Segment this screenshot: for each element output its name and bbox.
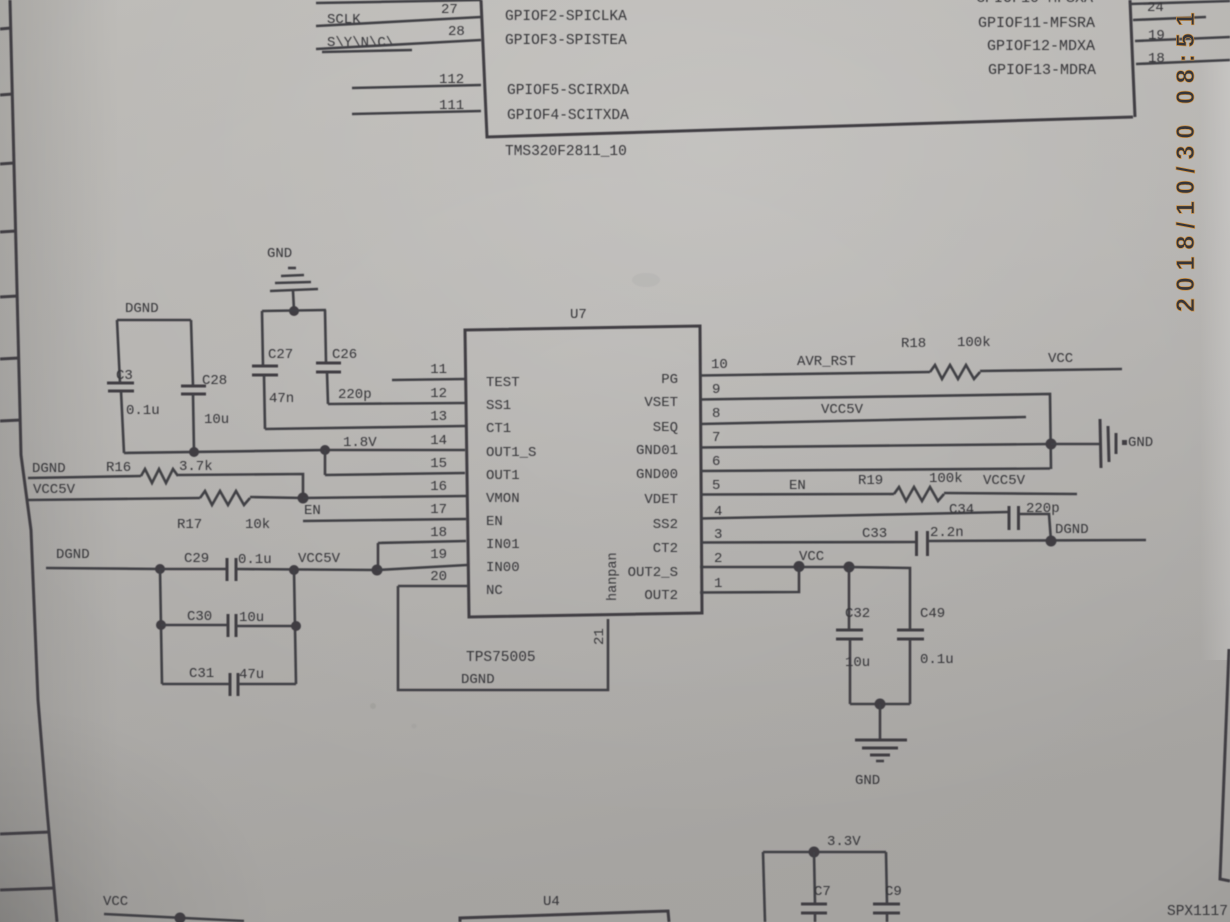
svg-text:C34: C34	[949, 502, 974, 518]
junction GND stem	[875, 699, 886, 710]
svg-text:C32: C32	[845, 606, 870, 622]
junction C30 left	[156, 620, 166, 630]
IC SPX1117 outline (cut at right)	[1220, 649, 1230, 881]
svg-text:VDET: VDET	[644, 492, 678, 508]
svg-text:28: 28	[448, 24, 465, 40]
wire pin above 24 (cut at top right)	[1129, 1, 1230, 4]
wire C29 block right vertical	[294, 570, 296, 684]
capacitor C49	[897, 630, 924, 704]
wire pin 28	[316, 40, 481, 49]
wire pin 2 VCC	[700, 566, 849, 569]
ground GND (below C32/C49)	[855, 704, 907, 761]
capacitor C9	[873, 852, 900, 922]
svg-text:2018/10/30 08:51: 2018/10/30 08:51	[1172, 6, 1200, 312]
wire C30 right	[236, 625, 296, 628]
wire pin 20	[398, 585, 467, 588]
svg-text:DGND: DGND	[1055, 522, 1089, 538]
svg-text:DGND: DGND	[32, 461, 66, 477]
wire C32/C49 bottoms	[850, 703, 910, 706]
wire pin 11	[392, 379, 465, 380]
svg-text:GND: GND	[855, 773, 880, 789]
wire pin 17	[303, 519, 466, 521]
svg-text:10u: 10u	[239, 610, 264, 626]
wire to C31	[162, 683, 230, 686]
svg-text:10k: 10k	[245, 517, 270, 533]
wire pin 16	[303, 496, 466, 498]
svg-text:R17: R17	[177, 517, 202, 533]
svg-text:VCC5V: VCC5V	[821, 402, 864, 418]
svg-text:C7: C7	[814, 884, 831, 900]
junction EN node	[298, 493, 309, 504]
svg-text:R18: R18	[901, 336, 926, 352]
svg-text:C27: C27	[268, 347, 293, 363]
resistor R17 10k	[200, 491, 250, 505]
svg-text:C49: C49	[920, 606, 945, 622]
wire pin 8 VCC5V	[700, 417, 1026, 424]
wire left pin stub 5	[0, 296, 18, 297]
svg-text:C26: C26	[332, 347, 357, 363]
wire pin 111	[352, 111, 481, 114]
svg-text:GND00: GND00	[636, 467, 678, 483]
wire R19 to VCC5V	[944, 493, 1077, 494]
wire C31 right	[238, 683, 296, 686]
svg-text:GPIOF2-SPICLKA: GPIOF2-SPICLKA	[505, 9, 627, 25]
svg-text:2: 2	[714, 551, 722, 567]
svg-text:100k: 100k	[929, 471, 963, 487]
svg-text:DGND: DGND	[56, 547, 90, 563]
resistor R19 100k	[894, 487, 944, 501]
svg-text:VCC5V: VCC5V	[298, 551, 341, 567]
wire pin 112	[352, 85, 481, 88]
svg-text:6: 6	[712, 454, 720, 470]
svg-text:100k: 100k	[957, 335, 991, 351]
wire pin 27 stub above SCLK (cut at top)	[316, 0, 481, 3]
svg-text:3.7k: 3.7k	[179, 459, 213, 475]
wire pin 12	[328, 403, 465, 404]
svg-text:3.3V: 3.3V	[827, 834, 861, 850]
svg-text:11: 11	[430, 362, 447, 378]
wire left pin stub 6	[0, 358, 19, 359]
wire to C30	[161, 624, 228, 627]
svg-text:GPIOF4-SCITXDA: GPIOF4-SCITXDA	[507, 108, 629, 124]
wire pin 4 to C34	[700, 512, 1009, 519]
svg-text:47u: 47u	[239, 667, 264, 683]
svg-text:GPIOF11-MFSRA: GPIOF11-MFSRA	[978, 15, 1095, 32]
capacitor C28	[181, 320, 206, 452]
faint speck 2	[412, 724, 417, 729]
junction 3.3V	[809, 847, 820, 858]
capacitor C3	[107, 320, 134, 453]
svg-text:17: 17	[430, 502, 447, 518]
svg-text:DGND: DGND	[461, 672, 495, 688]
svg-text:GND: GND	[267, 246, 292, 262]
wire to GND symbol	[1051, 443, 1100, 446]
wire DGND to C29 block	[46, 568, 160, 569]
wire pin 15	[325, 473, 465, 475]
svg-text:C33: C33	[862, 526, 887, 542]
junction VCC bottom	[175, 913, 186, 922]
wire to C29	[160, 568, 227, 571]
svg-text:OUT2_S: OUT2_S	[628, 565, 678, 581]
svg-text:GPIOF10-MFSXA: GPIOF10-MFSXA	[976, 0, 1093, 7]
svg-text:GPIOF12-MDXA: GPIOF12-MDXA	[987, 38, 1095, 55]
IC U4 outline (cut at bottom)	[460, 911, 669, 922]
wire pin 9	[700, 394, 1051, 469]
wire left pin stub 2	[0, 94, 13, 95]
junction C29 left	[155, 564, 165, 574]
svg-text:14: 14	[430, 433, 447, 449]
capacitor C30	[228, 614, 236, 637]
junction GND node	[1046, 439, 1057, 450]
wire pin 20 DGND loop to pin 21	[398, 586, 608, 690]
svg-text:47n: 47n	[269, 391, 294, 407]
svg-text:7: 7	[712, 430, 720, 446]
svg-text:19: 19	[430, 547, 447, 563]
capacitor C7	[801, 852, 827, 922]
wire pin 19	[1135, 37, 1230, 41]
svg-text:U7: U7	[570, 307, 587, 323]
svg-text:hanpan: hanpan	[606, 552, 621, 601]
wire 1.8V down to pin 15	[324, 450, 327, 475]
wire DGND to R16	[28, 476, 141, 478]
wire pin 3 to C33	[700, 541, 916, 544]
wire VCC bottom	[104, 914, 244, 921]
svg-text:R16: R16	[106, 460, 131, 476]
svg-text:SS1: SS1	[486, 398, 511, 414]
svg-text:OUT2: OUT2	[644, 588, 678, 604]
svg-text:0.1u: 0.1u	[238, 552, 272, 568]
junction C32 branch	[844, 562, 855, 573]
junction at GND/C27/C26	[289, 306, 299, 316]
svg-text:EN: EN	[304, 503, 321, 519]
svg-text:PG: PG	[661, 372, 678, 388]
wire 3.3V rail	[763, 851, 886, 854]
wire pin 5 EN to R19	[700, 493, 894, 496]
svg-text:OUT1_S: OUT1_S	[486, 445, 536, 461]
faint smudge	[632, 273, 660, 287]
svg-text:SS2: SS2	[653, 517, 678, 533]
svg-text:IN00: IN00	[486, 560, 520, 576]
junction 1.8V node	[320, 445, 330, 455]
wire C27 top to C26 top	[262, 310, 326, 311]
svg-text:R19: R19	[858, 473, 883, 489]
wire C34 to DGND corner	[1019, 514, 1051, 541]
svg-text:EN: EN	[486, 514, 503, 530]
svg-text:OUT1: OUT1	[486, 468, 520, 484]
svg-text:15: 15	[430, 456, 447, 472]
svg-text:16: 16	[430, 479, 447, 495]
junction pin18 drop	[372, 565, 383, 576]
wire left pin stub 7	[0, 420, 21, 421]
wire pin 1 riser	[700, 567, 799, 593]
capacitor C26	[316, 310, 341, 404]
capacitor C31	[230, 673, 238, 696]
svg-text:VCC5V: VCC5V	[33, 482, 76, 498]
svg-text:DGND: DGND	[125, 301, 159, 317]
wire C29 to VCC5V junctions / pin 19	[236, 569, 377, 570]
svg-text:1.8V: 1.8V	[343, 435, 377, 451]
wire DGND block top	[117, 319, 191, 322]
svg-text:5: 5	[712, 478, 720, 494]
capacitor C33	[917, 531, 928, 556]
svg-text:TEST: TEST	[486, 375, 520, 391]
junction pin1 riser	[794, 561, 805, 572]
wire pin 18	[378, 541, 466, 543]
resistor R16 3.7k	[141, 469, 178, 483]
svg-text:C9: C9	[885, 884, 902, 900]
capacitor C32	[836, 567, 863, 704]
ground GND (sideways)	[1100, 419, 1127, 468]
svg-text:C3: C3	[116, 368, 133, 384]
wire pin 7	[700, 444, 1051, 448]
wire R18 to VCC	[980, 369, 1122, 371]
svg-text:C28: C28	[202, 373, 227, 389]
svg-text:AVR_RST: AVR_RST	[797, 354, 856, 370]
svg-text:10u: 10u	[204, 412, 229, 428]
svg-text:VCC: VCC	[103, 894, 128, 910]
ground GND (above C27/C26)	[270, 268, 318, 310]
junction C29 right	[289, 565, 299, 575]
svg-text:12: 12	[430, 386, 447, 402]
svg-text:CT1: CT1	[486, 421, 511, 437]
wire left pin stub 9	[0, 888, 55, 890]
svg-text:C29: C29	[184, 551, 209, 567]
svg-text:IN01: IN01	[486, 537, 520, 553]
svg-text:VSET: VSET	[644, 395, 678, 411]
wire 1.8V rail / pin 14	[124, 450, 325, 453]
junction C28 bottom	[189, 447, 199, 457]
svg-text:0.1u: 0.1u	[126, 403, 160, 419]
svg-text:EN: EN	[789, 478, 806, 494]
resistor R18 100k	[930, 365, 980, 379]
svg-text:U4: U4	[543, 894, 560, 910]
junction DGND node	[1046, 536, 1057, 547]
svg-text:10: 10	[711, 357, 728, 373]
svg-text:TPS75005: TPS75005	[466, 650, 536, 666]
svg-text:SPX1117: SPX1117	[1167, 904, 1228, 920]
svg-text:VMON: VMON	[486, 491, 520, 507]
wire pin 10 AVR_RST to R18	[700, 372, 930, 376]
wire pin 27	[316, 17, 481, 26]
wire underline under SYNC	[322, 50, 412, 52]
svg-text:20: 20	[430, 569, 447, 585]
svg-text:10u: 10u	[845, 655, 870, 671]
wire R16 to corner	[178, 474, 303, 499]
wire left pin stub 4	[0, 231, 16, 232]
svg-text:9: 9	[712, 382, 720, 398]
svg-text:21: 21	[592, 628, 608, 645]
svg-text:NC: NC	[486, 583, 503, 599]
wire VCC to C49 branch	[849, 567, 910, 630]
svg-text:24: 24	[1147, 0, 1164, 16]
wire C33 to right	[928, 540, 1146, 541]
wire left pin stub 8	[0, 832, 50, 834]
svg-text:8: 8	[712, 406, 720, 422]
capacitor C27	[252, 311, 278, 429]
wire pin 13	[265, 426, 465, 429]
svg-text:27: 27	[441, 2, 458, 18]
junction C30 right	[291, 621, 301, 631]
svg-text:TMS320F2811_10: TMS320F2811_10	[505, 144, 627, 160]
svg-text:2.2n: 2.2n	[930, 525, 964, 541]
capacitor C34	[1009, 506, 1019, 530]
wire pin 6	[700, 469, 1050, 472]
svg-text:0.1u: 0.1u	[920, 652, 954, 668]
wire pin 24	[1133, 17, 1206, 20]
svg-text:18: 18	[430, 525, 447, 541]
svg-text:13: 13	[430, 409, 447, 425]
svg-text:220p: 220p	[338, 387, 372, 403]
svg-text:VCC: VCC	[1048, 351, 1073, 367]
svg-text:3: 3	[714, 527, 722, 543]
adjacent IC edge at left margin	[10, 0, 57, 922]
wire VCC5V to R17	[28, 498, 200, 500]
wire left branch down	[763, 852, 765, 922]
capacitor C29	[227, 558, 236, 581]
svg-text:GND: GND	[1128, 435, 1153, 451]
wire pin 19	[377, 565, 467, 570]
svg-text:GPIOF13-MDRA: GPIOF13-MDRA	[988, 62, 1096, 79]
svg-text:GND01: GND01	[636, 443, 678, 459]
wire R17 to junction	[250, 497, 303, 498]
wire left pin stub 1	[0, 28, 11, 29]
svg-text:GPIOF5-SCIRXDA: GPIOF5-SCIRXDA	[507, 83, 629, 99]
IC U7 TPS75005 outline	[465, 326, 702, 617]
wire C29 block left vertical	[160, 569, 162, 684]
wire pin 18	[1136, 60, 1230, 64]
svg-text:1: 1	[714, 576, 722, 592]
svg-text:C31: C31	[189, 666, 214, 682]
wire left pin stub 3	[0, 163, 14, 164]
svg-text:VCC5V: VCC5V	[983, 473, 1026, 489]
svg-text:GPIOF3-SPISTEA: GPIOF3-SPISTEA	[505, 33, 627, 49]
svg-text:C30: C30	[187, 609, 212, 625]
wire pin 18 drop to VCC5V rail	[377, 543, 380, 570]
IC U? TMS320F2811 outline (partially cut at top)	[481, 0, 1135, 137]
svg-text:SEQ: SEQ	[653, 420, 678, 436]
faint speck 1	[370, 703, 376, 709]
svg-text:CT2: CT2	[653, 541, 678, 557]
